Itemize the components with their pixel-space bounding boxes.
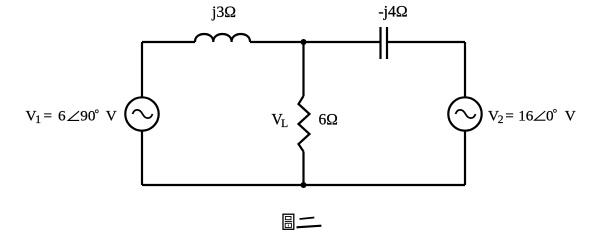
svg-text:V: V bbox=[106, 108, 117, 125]
svg-text:90°: 90° bbox=[80, 108, 99, 125]
svg-text:=: = bbox=[44, 108, 53, 125]
svg-text:j3Ω: j3Ω bbox=[211, 4, 236, 21]
svg-text:V1: V1 bbox=[26, 108, 42, 127]
svg-text:16: 16 bbox=[518, 107, 534, 124]
svg-text:0°: 0° bbox=[546, 107, 558, 124]
svg-text:=: = bbox=[505, 107, 514, 124]
svg-text:6Ω: 6Ω bbox=[319, 112, 338, 129]
svg-text:V: V bbox=[565, 107, 576, 124]
svg-text:V2: V2 bbox=[488, 107, 504, 126]
svg-text:6: 6 bbox=[58, 108, 66, 125]
svg-text:-j4Ω: -j4Ω bbox=[378, 4, 407, 21]
svg-text:VL: VL bbox=[272, 111, 289, 130]
